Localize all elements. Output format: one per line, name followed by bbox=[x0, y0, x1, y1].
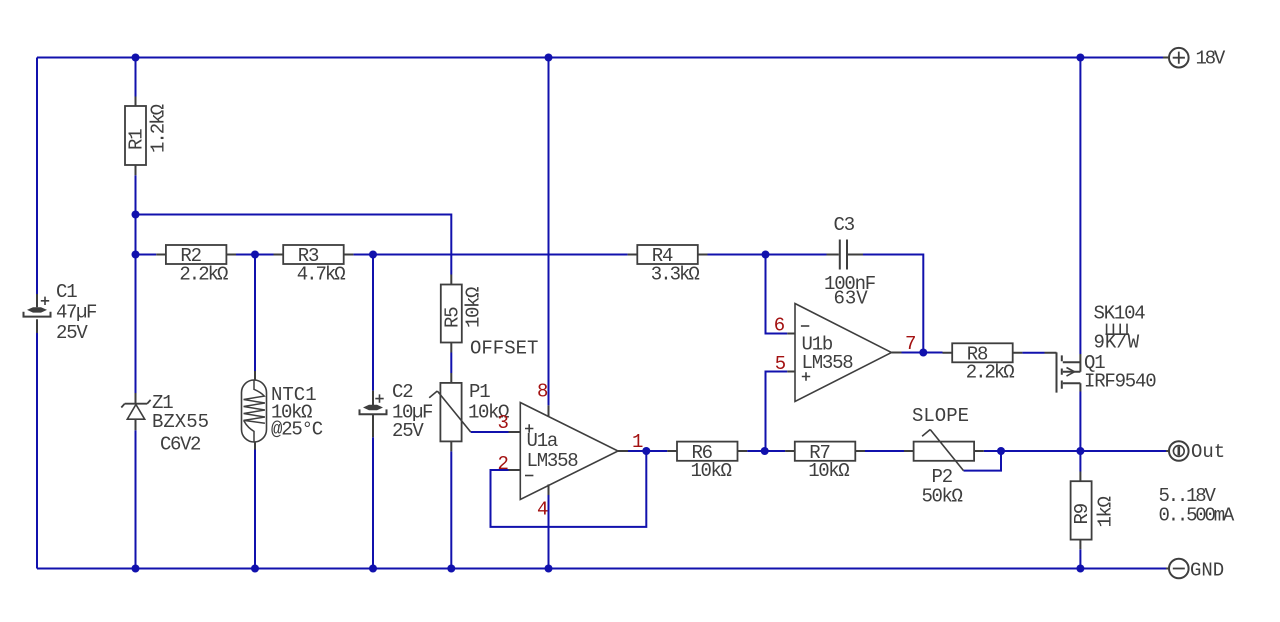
svg-text:C3: C3 bbox=[834, 214, 855, 236]
svg-text:10kΩ: 10kΩ bbox=[808, 460, 849, 482]
node top rail R1 bbox=[132, 54, 140, 62]
resistor R6 bbox=[667, 442, 747, 482]
svg-text:R1: R1 bbox=[126, 129, 148, 150]
resistor R4 bbox=[628, 245, 708, 285]
svg-text:1kΩ: 1kΩ bbox=[1095, 496, 1117, 527]
svg-text:P1: P1 bbox=[469, 381, 490, 403]
wire P2 wiper bbox=[964, 451, 1002, 471]
wire R4 to C3 bbox=[708, 254, 827, 256]
wire Q1 drain to out node bbox=[1079, 392, 1081, 452]
svg-text:25V: 25V bbox=[56, 322, 88, 344]
node top rail pin8 bbox=[545, 54, 553, 62]
svg-text:63V: 63V bbox=[834, 288, 869, 310]
wire Q1 source column bbox=[1079, 58, 1081, 355]
capacitor C2 bbox=[360, 381, 434, 442]
svg-text:LM358: LM358 bbox=[802, 352, 854, 374]
node Q1 drain out bbox=[1076, 447, 1084, 455]
node R2 NTC bbox=[251, 251, 259, 259]
wire offset feed horizontal bbox=[136, 215, 452, 275]
svg-text:3: 3 bbox=[498, 412, 509, 434]
wire P2 to Out bbox=[984, 450, 1166, 452]
svg-text:C2: C2 bbox=[392, 381, 413, 403]
svg-text:9K/W: 9K/W bbox=[1094, 332, 1140, 354]
svg-text:2: 2 bbox=[498, 453, 509, 475]
wire R2 to node B bbox=[236, 254, 274, 256]
node pin7 C3 bbox=[919, 349, 927, 357]
wire U1b pin6 bbox=[766, 255, 788, 334]
terminal +18V bbox=[1163, 48, 1226, 70]
svg-text:25V: 25V bbox=[392, 420, 424, 442]
resistor R1 bbox=[125, 97, 170, 176]
svg-text:47µF: 47µF bbox=[56, 302, 97, 324]
svg-text:U1a: U1a bbox=[527, 430, 558, 452]
node bottom pin4 bbox=[545, 565, 553, 573]
wire R5 to P1 bbox=[450, 353, 452, 374]
capacitor C1 bbox=[24, 281, 98, 344]
svg-text:@25°C: @25°C bbox=[271, 419, 323, 441]
svg-text:IRF9540: IRF9540 bbox=[1084, 371, 1156, 393]
svg-text:3.3kΩ: 3.3kΩ bbox=[651, 263, 700, 285]
node R3 C2 bbox=[369, 251, 377, 259]
wire C2 column bottom bbox=[372, 437, 374, 568]
wire NTC column bottom bbox=[254, 450, 256, 569]
zener diode Z1 bbox=[121, 392, 209, 456]
wire P1 to bottom rail bbox=[450, 451, 452, 568]
svg-text:C6V2: C6V2 bbox=[160, 434, 201, 456]
node bottom Z1 bbox=[132, 565, 140, 573]
svg-text:R5: R5 bbox=[441, 307, 463, 328]
svg-text:7: 7 bbox=[905, 333, 915, 355]
wire U1a feedback pin2 loop bbox=[491, 451, 647, 527]
svg-text:6: 6 bbox=[774, 315, 785, 337]
svg-text:2.2kΩ: 2.2kΩ bbox=[966, 362, 1015, 384]
svg-text:2.2kΩ: 2.2kΩ bbox=[179, 263, 228, 285]
wire left supply rail lower bbox=[36, 333, 38, 569]
svg-text:1: 1 bbox=[632, 431, 643, 453]
wire U1a pin4 to bottom rail bbox=[548, 495, 550, 569]
node bottom NTC bbox=[251, 565, 259, 573]
op-amp U1b bbox=[787, 304, 901, 402]
heatsink SK104 bbox=[1094, 303, 1146, 354]
svg-text:10kΩ: 10kΩ bbox=[463, 287, 485, 328]
op-amp U1a bbox=[509, 403, 629, 500]
node bottom R9 bbox=[1076, 565, 1084, 573]
wire +18V top rail bbox=[37, 57, 1163, 59]
node P2 wiper bbox=[997, 447, 1005, 455]
svg-text:4: 4 bbox=[537, 499, 548, 521]
node bottom P1 bbox=[447, 565, 455, 573]
svg-text:8: 8 bbox=[537, 381, 548, 403]
node R4 C3 pin6 bbox=[762, 251, 770, 259]
wire R6 to R7 bbox=[747, 450, 785, 452]
svg-text:C1: C1 bbox=[56, 281, 77, 303]
wire left supply rail upper bbox=[36, 58, 38, 295]
resistor R3 bbox=[274, 245, 354, 285]
svg-text:4.7kΩ: 4.7kΩ bbox=[297, 263, 346, 285]
thermistor NTC1 bbox=[242, 371, 323, 450]
svg-text:OFFSET: OFFSET bbox=[470, 338, 538, 360]
resistor R9 bbox=[1071, 472, 1117, 550]
node pin1 out bbox=[642, 447, 650, 455]
node bottom C2 bbox=[369, 565, 377, 573]
svg-text:10kΩ: 10kΩ bbox=[691, 460, 732, 482]
wire Z1 to bottom rail bbox=[135, 430, 137, 568]
svg-text:LM358: LM358 bbox=[527, 450, 579, 472]
wire out node to R9 bbox=[1079, 451, 1081, 472]
wire GND bottom rail bbox=[37, 568, 1166, 570]
node row left bbox=[132, 251, 140, 259]
wire U1a pin8 power column bbox=[548, 58, 550, 406]
potentiometer P1 bbox=[429, 373, 509, 451]
resistor R2 bbox=[156, 245, 236, 285]
capacitor C3 bbox=[824, 214, 876, 310]
wire row node A segment bbox=[136, 254, 157, 256]
wire P1 wiper to pin3 bbox=[471, 431, 509, 433]
resistor R5 bbox=[441, 275, 485, 353]
wire R9 to bottom rail bbox=[1079, 549, 1081, 568]
wire C3 right to corner bbox=[863, 255, 923, 353]
wire R7 to P2 bbox=[865, 450, 904, 452]
svg-text:GND: GND bbox=[1190, 560, 1224, 582]
wire R8 to Q1 gate bbox=[1022, 352, 1044, 354]
node R6 R7 pin5 bbox=[761, 447, 769, 455]
svg-text:Out: Out bbox=[1191, 441, 1225, 463]
resistor R8 bbox=[943, 343, 1023, 383]
svg-text:0..500mA: 0..500mA bbox=[1159, 505, 1235, 527]
svg-text:R9: R9 bbox=[1071, 503, 1093, 524]
svg-text:SK104: SK104 bbox=[1094, 303, 1146, 325]
node top rail Q1 bbox=[1076, 54, 1084, 62]
wire R3 to R4 bbox=[353, 254, 627, 256]
svg-text:1.2kΩ: 1.2kΩ bbox=[148, 104, 170, 153]
wire U1a out to R6 bbox=[628, 450, 667, 452]
wire C2 column top bbox=[372, 255, 374, 391]
svg-text:5: 5 bbox=[775, 353, 786, 375]
svg-text:18V: 18V bbox=[1196, 48, 1226, 70]
transistor Q1 bbox=[1045, 352, 1157, 393]
svg-text:50kΩ: 50kΩ bbox=[922, 486, 963, 508]
terminal Out bbox=[1166, 441, 1225, 463]
wire U1b pin5 bbox=[766, 372, 788, 452]
svg-text:BZX55: BZX55 bbox=[152, 411, 209, 433]
wire NTC column top bbox=[254, 255, 256, 372]
terminal GND bbox=[1166, 559, 1224, 582]
svg-text:SLOPE: SLOPE bbox=[912, 405, 969, 427]
resistor R7 bbox=[785, 442, 865, 482]
node offset feed bbox=[132, 211, 140, 219]
wire R1 column top bbox=[135, 58, 137, 97]
wire R1 column middle bbox=[135, 175, 137, 393]
wire U1b pin7 out bbox=[902, 352, 943, 354]
potentiometer P2 bbox=[904, 430, 984, 508]
